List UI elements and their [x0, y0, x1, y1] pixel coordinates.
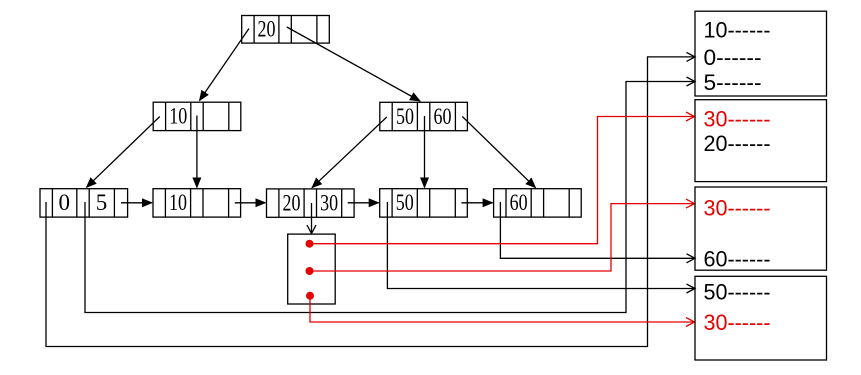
- svg-text:60: 60: [434, 104, 452, 129]
- svg-text:60------: 60------: [704, 247, 771, 272]
- svg-text:60: 60: [510, 190, 528, 215]
- wire bucket dot1 to page2 record 30 (red): [310, 117, 695, 244]
- data page 3: [695, 187, 827, 270]
- wire leaf50.p1 to page4 record 50: [387, 202, 694, 289]
- data page 1: [695, 11, 827, 96]
- leaf2030 (leaf node, keys 20 30): [267, 189, 355, 217]
- svg-text:0------: 0------: [704, 45, 762, 70]
- wire leaf2030.p2 to bucket (arrow): [311, 203, 313, 233]
- wire leaf60.p1 to page3 record 60: [500, 202, 694, 258]
- svg-text:30------: 30------: [704, 310, 771, 335]
- wire root.p1 to n10 (arrow): [200, 29, 250, 101]
- svg-text:5------: 5------: [704, 70, 762, 95]
- svg-text:20------: 20------: [704, 131, 771, 156]
- leaf10 (leaf node, key 10): [153, 189, 241, 217]
- leaf05 (leaf node, keys 0 5): [40, 189, 128, 217]
- svg-text:5: 5: [96, 190, 108, 215]
- wire leaf05.p1 to page1 record 0: [46, 57, 695, 347]
- svg-text:10: 10: [169, 104, 187, 129]
- wire leaf2030 to leaf50 (sibling arrow): [348, 202, 379, 204]
- wire leaf05.p2 to page1 record 5: [85, 82, 695, 313]
- node n10 (internal, key 10): [153, 102, 241, 130]
- svg-text:20: 20: [283, 190, 301, 215]
- svg-text:10------: 10------: [704, 17, 771, 42]
- wire leaf10 to leaf2030 (sibling arrow): [235, 202, 266, 204]
- bucket dot 3: [306, 292, 314, 300]
- bucket box (overflow bucket for key 30): [288, 234, 336, 304]
- bucket dot 1: [306, 240, 314, 248]
- svg-text:50: 50: [396, 104, 414, 129]
- wire n10.p2 to leaf10 (arrow): [196, 116, 198, 188]
- wire leaf50 to leaf60 (sibling arrow): [461, 202, 492, 204]
- leaf60 (leaf node, key 60): [494, 189, 582, 217]
- svg-text:10: 10: [169, 190, 187, 215]
- wire n5060.p3 to leaf60 (arrow): [462, 117, 535, 188]
- wire n5060.p1 to leaf2030 (arrow): [312, 117, 387, 188]
- node n5060 (internal, keys 50 60): [380, 102, 468, 130]
- data page 2: [695, 100, 827, 182]
- svg-text:50: 50: [396, 190, 414, 215]
- data page 4: [695, 276, 827, 360]
- svg-text:30------: 30------: [704, 107, 771, 132]
- node root (internal, key 20): [242, 16, 330, 44]
- wire root.p2 to n5060 (arrow): [287, 27, 420, 101]
- wire leaf05 to leaf10 (sibling arrow): [121, 202, 152, 204]
- bucket dot 2: [306, 267, 314, 275]
- svg-text:50------: 50------: [704, 280, 771, 305]
- svg-text:30------: 30------: [704, 196, 771, 221]
- wire n10.p1 to leaf05 (arrow): [87, 117, 160, 188]
- svg-text:0: 0: [59, 190, 71, 215]
- wire n5060.p2 to leaf50 (arrow): [424, 116, 426, 188]
- svg-text:30: 30: [320, 190, 338, 215]
- wire bucket dot3 to page4 record 30 (red): [310, 296, 694, 322]
- wire bucket dot2 to page3 record 30 (red): [310, 204, 695, 271]
- leaf50 (leaf node, key 50): [380, 189, 468, 217]
- svg-text:20: 20: [258, 17, 276, 42]
